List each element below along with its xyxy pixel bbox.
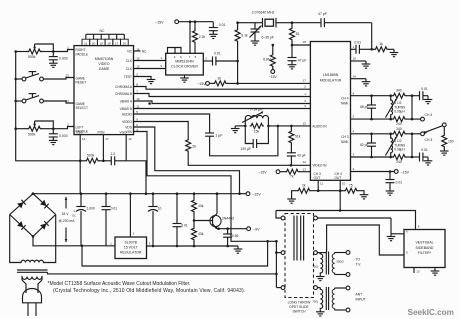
- svg-text:INPUT: INPUT: [356, 298, 366, 302]
- capacitor 120 uF (audio tank): [240, 126, 268, 151]
- ground (T1): [316, 274, 325, 280]
- svg-text:6.8M: 6.8M: [263, 57, 271, 61]
- capacitor 1000 uF (filter): [73, 194, 95, 246]
- resistor 75 (CH out): [340, 183, 364, 194]
- wire pin 16 ground: [351, 61, 367, 64]
- wire S2 to pin 24: [43, 101, 74, 103]
- svg-text:SL007B: SL007B: [124, 241, 137, 245]
- switch S3 DPDT slide (dashed box): [285, 214, 314, 298]
- wire crystal to cap: [292, 22, 321, 24]
- capacitor 68 pF (CH4 tank): [360, 96, 376, 119]
- svg-text:75Ω: 75Ω: [312, 264, 318, 268]
- wire U1 CLK to clock driver pin 1: [134, 56, 166, 60]
- capacitor (pin 1 coupling): [351, 40, 372, 53]
- terminal -15V (6.8M): [269, 68, 278, 79]
- terminal ANT top: [346, 286, 350, 290]
- svg-text:OUT: OUT: [335, 176, 342, 180]
- svg-text:CH 3: CH 3: [425, 138, 433, 142]
- svg-text:NC: NC: [142, 50, 147, 54]
- AC plug: [23, 289, 42, 317]
- resistor 43k (upper): [192, 194, 204, 222]
- svg-text:13: 13: [303, 167, 307, 171]
- transformer T2 primary: [312, 288, 323, 310]
- svg-text:0.003: 0.003: [59, 134, 68, 138]
- svg-text:NC: NC: [100, 29, 105, 33]
- svg-text:0.56: 0.56: [232, 234, 239, 238]
- svg-text:2.2k: 2.2k: [199, 35, 206, 39]
- wire to switch left-middle: [275, 240, 281, 288]
- svg-text:10: 10: [158, 207, 162, 211]
- capacitor 0.01 (CH4 out): [420, 87, 429, 100]
- svg-text:500k: 500k: [28, 55, 36, 59]
- svg-text:@ 200 mA: @ 200 mA: [58, 219, 75, 223]
- svg-text:340: 340: [396, 127, 402, 131]
- wire regulator input: [33, 236, 115, 247]
- ground (mod supply cap): [386, 181, 403, 196]
- svg-text:MM53104N: MM53104N: [175, 59, 194, 63]
- ground (TEST): [147, 80, 156, 84]
- svg-text:24: 24: [65, 99, 69, 103]
- wire CH3 out pin 11: [317, 180, 320, 192]
- svg-text:CLK: CLK: [126, 59, 133, 63]
- svg-text:−15V: −15V: [155, 20, 164, 24]
- wire long return line: [82, 241, 268, 266]
- wire down to modulator pin 1: [370, 23, 373, 51]
- capacitor 0.01 (supply): [102, 194, 118, 246]
- wire CH3 tank top: [351, 133, 393, 136]
- svg-text:−9V: −9V: [253, 228, 260, 232]
- capacitor 0.01 (mod supply): [386, 172, 395, 192]
- switch S1 game reset: [14, 72, 43, 81]
- transformer T1 primary: [312, 253, 323, 275]
- capacitor 47 uF (osc): [288, 45, 307, 65]
- transformer T3 primary: [22, 277, 42, 280]
- transformer T2 secondary: [332, 288, 346, 310]
- svg-text:VIDEO: VIDEO: [122, 120, 132, 124]
- svg-text:11: 11: [320, 182, 323, 186]
- wire U1 pin16 NC stub: [134, 50, 148, 54]
- svg-text:1 µF: 1 µF: [215, 134, 223, 138]
- resistor 2.2k (clock supply): [193, 20, 206, 53]
- wire bus to regulator pin 2: [130, 194, 134, 237]
- switch S2 game select: [14, 94, 43, 103]
- ground (pin1 1k): [390, 53, 399, 57]
- svg-text:43k: 43k: [198, 232, 204, 236]
- terminal -15V (bus): [246, 192, 261, 197]
- inductor L2 CH3 tuning: [386, 134, 406, 157]
- svg-text:VIDEO: VIDEO: [98, 62, 109, 66]
- svg-text:VSS: VSS: [76, 131, 82, 135]
- resistor 2k (video): [186, 140, 197, 152]
- ground (pin16): [362, 64, 371, 68]
- capacitor 43 uF: [287, 144, 306, 165]
- wire audio path cont: [210, 125, 280, 156]
- svg-text:20: 20: [92, 41, 96, 45]
- resistor 500k (VSS bias): [80, 154, 103, 164]
- svg-text:0.01: 0.01: [214, 52, 221, 56]
- svg-text:0.06µH: 0.06µH: [394, 110, 405, 114]
- svg-text:VIDEO IN: VIDEO IN: [312, 164, 327, 168]
- svg-text:240: 240: [396, 122, 402, 126]
- svg-text:SIDEBAND: SIDEBAND: [416, 246, 434, 250]
- svg-text:SWITCH: SWITCH: [292, 310, 306, 314]
- resistor 2k (pin17): [214, 77, 228, 86]
- wire pot1 to pin 1: [53, 50, 74, 52]
- svg-text:19: 19: [100, 41, 104, 45]
- wire CH3 tank bottom: [351, 134, 413, 159]
- capacitor 47 pF (osc out): [318, 12, 372, 27]
- svg-text:LM1889N: LM1889N: [323, 73, 339, 77]
- svg-text:2k: 2k: [218, 77, 222, 81]
- IC U4 voltage regulator: [110, 237, 150, 259]
- svg-text:5.1k: 5.1k: [241, 34, 248, 38]
- svg-text:15k: 15k: [254, 129, 260, 133]
- terminal TV out bottom: [346, 273, 350, 277]
- resistor 340 (CH4): [393, 88, 420, 98]
- svg-text:82 pF: 82 pF: [360, 143, 368, 147]
- svg-text:14: 14: [353, 74, 357, 78]
- svg-text:15 VOLT: 15 VOLT: [124, 246, 139, 250]
- svg-text:21: 21: [84, 41, 88, 45]
- filter FL1 vestigial sideband: [404, 225, 445, 268]
- svg-text:51: 51: [296, 32, 300, 36]
- wire video path to pin 12: [188, 152, 310, 167]
- wire U1 CLK to clock driver pin 9: [134, 64, 166, 68]
- wire RF line to filter pin 8: [276, 191, 416, 230]
- wire clock driver pins 3,6 tie: [168, 48, 182, 54]
- wire audio path: [134, 114, 210, 133]
- potentiometer R2 500k (left paddle): [14, 121, 54, 136]
- svg-text:TANK: TANK: [340, 102, 349, 106]
- wire pin12 to bus: [126, 161, 147, 195]
- switch terminals left: [281, 216, 285, 289]
- label ANT INPUT: [356, 293, 366, 302]
- wire chroma B line: [134, 85, 311, 90]
- wire to modulator pin 18: [292, 40, 310, 45]
- svg-text:75Ω: 75Ω: [312, 299, 318, 303]
- switch slide bars: [294, 216, 304, 261]
- svg-text:AUDIO IN: AUDIO IN: [312, 124, 327, 128]
- resistor 340 (CH3): [393, 127, 421, 136]
- svg-text:43k: 43k: [198, 204, 204, 208]
- wire plug leads: [22, 277, 42, 294]
- svg-text:120 µF: 120 µF: [240, 147, 251, 151]
- svg-text:43 µF: 43 µF: [297, 153, 306, 157]
- svg-text:DPDT SLIDE: DPDT SLIDE: [289, 305, 309, 309]
- transformer T1 secondary: [332, 253, 346, 275]
- variable capacitor 6-35 pF: [250, 23, 274, 41]
- svg-text:−15V: −15V: [197, 82, 206, 86]
- svg-text:−15V: −15V: [258, 171, 267, 175]
- ground (CH3 cap): [424, 161, 433, 165]
- resistor 240 (CH3): [393, 155, 420, 165]
- svg-text:CH 4: CH 4: [425, 113, 433, 117]
- wire bridge left to secondary: [10, 215, 21, 263]
- terminal -9V: [247, 227, 260, 232]
- wire clock driver pin 7 to -15V line: [189, 20, 192, 53]
- caption text: [48, 281, 246, 294]
- svg-text:1.0: 1.0: [111, 152, 116, 156]
- svg-text:0.01: 0.01: [219, 23, 226, 27]
- svg-text:FILTER*: FILTER*: [418, 251, 432, 255]
- svg-text:REGULATOR: REGULATOR: [120, 251, 142, 255]
- ground (filter): [431, 268, 440, 276]
- wire pin 14 ground: [351, 79, 367, 82]
- svg-text:68 pF: 68 pF: [360, 105, 368, 109]
- wire -15V bus: [32, 192, 246, 195]
- IC U1 MM57105N video game chip: [65, 29, 139, 141]
- resistor 51k (audio-video): [289, 126, 301, 144]
- svg-text:75: 75: [349, 183, 353, 187]
- svg-text:PADDLE: PADDLE: [76, 52, 89, 56]
- capacitor 0.56: [223, 229, 238, 248]
- svg-text:0.08µH: 0.08µH: [394, 148, 405, 152]
- ground (right paddle cap): [49, 63, 58, 67]
- svg-text:0.003: 0.003: [59, 57, 68, 61]
- svg-text:14: 14: [82, 137, 86, 141]
- wire VSS line to switch: [134, 132, 277, 243]
- IC U2 MM53104N clock driver: [166, 53, 204, 75]
- svg-text:AUDIO: AUDIO: [122, 112, 133, 116]
- svg-text:VBIAS A: VBIAS A: [120, 99, 133, 103]
- svg-text:18: 18: [107, 41, 111, 45]
- svg-text:18 V: 18 V: [62, 212, 70, 216]
- svg-text:TEST: TEST: [124, 75, 132, 79]
- switch channel select: [424, 123, 446, 134]
- ground (75 res): [360, 195, 369, 199]
- svg-text:0.01: 0.01: [111, 207, 118, 211]
- wire audio tank to pin 15: [268, 125, 310, 128]
- label TO T.V.: [356, 258, 362, 267]
- potentiometer R1 500k (right paddle): [14, 44, 54, 59]
- svg-text:51k: 51k: [295, 135, 301, 139]
- ground (pin14): [362, 82, 371, 86]
- resistor 1k (pin 1): [372, 42, 394, 53]
- svg-text:12: 12: [303, 160, 307, 164]
- svg-text:TO: TO: [356, 258, 361, 262]
- svg-text:CLOCK DRIVER: CLOCK DRIVER: [171, 65, 198, 69]
- ground (reg output): [234, 249, 243, 253]
- wire CH4 tank top: [351, 94, 393, 97]
- svg-text:0.01: 0.01: [181, 224, 188, 228]
- svg-text:16: 16: [353, 57, 357, 61]
- transformer T3 core: [17, 270, 48, 272]
- svg-text:NC: NC: [127, 49, 132, 53]
- svg-text:−15V: −15V: [252, 193, 261, 197]
- wire RF line to switch top-left: [276, 211, 281, 219]
- svg-text:VESTIGIAL: VESTIGIAL: [415, 241, 433, 245]
- capacitor 0.01 (reg out): [173, 194, 188, 248]
- capacitor 1.0 (PON): [103, 152, 126, 165]
- resistor 240 (CH4): [393, 117, 421, 127]
- svg-text:DC: DC: [72, 213, 76, 217]
- svg-text:T.V.: T.V.: [356, 263, 362, 267]
- svg-text:0.01: 0.01: [354, 40, 361, 44]
- wire Vbias B line: [134, 99, 311, 105]
- resistor 43k (lower): [192, 221, 204, 248]
- svg-text:VGG: VGG: [120, 131, 128, 135]
- svg-text:(Crystal Technology Inc., 2510: (Crystal Technology Inc., 2510 Old Middl…: [53, 288, 245, 294]
- left supply bus wire: [16, 52, 81, 161]
- svg-text:OUT: OUT: [314, 176, 321, 180]
- svg-text:12: 12: [128, 137, 132, 141]
- svg-text:−15V: −15V: [269, 75, 278, 79]
- svg-text:17: 17: [115, 41, 119, 45]
- terminal TV out top: [346, 251, 350, 255]
- svg-text:2k: 2k: [302, 183, 306, 187]
- resistor 2k (video out): [292, 183, 341, 199]
- ground (left paddle cap): [49, 140, 58, 144]
- svg-text:2.070640 MHz: 2.070640 MHz: [252, 11, 275, 15]
- label slide switch: [288, 301, 312, 314]
- wire to modulator pin 17: [227, 78, 310, 83]
- svg-text:47 pF: 47 pF: [318, 12, 327, 16]
- wire VSS-PON network: [79, 141, 126, 194]
- wire VDD line to -15V bus: [134, 127, 241, 195]
- ground (clock bypass cap): [209, 34, 218, 38]
- svg-text:ANT: ANT: [356, 293, 363, 297]
- resistor 5.1k (osc bias): [235, 23, 248, 85]
- ground (T2): [316, 310, 325, 316]
- svg-text:CH 4: CH 4: [341, 97, 348, 101]
- svg-text:7k: 7k: [290, 175, 294, 179]
- switch terminals right: [314, 216, 318, 289]
- svg-text:2N4403: 2N4403: [222, 216, 234, 220]
- capacitor 0.003 (left paddle): [49, 129, 68, 141]
- svg-text:2k: 2k: [192, 144, 196, 148]
- capacitor 0.01 (CH3 out): [420, 148, 429, 161]
- svg-text:15: 15: [303, 121, 307, 125]
- svg-text:23: 23: [65, 74, 69, 78]
- svg-text:RESET: RESET: [76, 81, 87, 85]
- transformer T3 secondary: [21, 260, 44, 262]
- svg-text:340: 340: [396, 88, 402, 92]
- wire switch mid-right to filter pin 5: [317, 225, 404, 255]
- transformer T2 core: [326, 287, 328, 310]
- wire chroma A line: [134, 92, 311, 97]
- terminal CH3 output: [421, 132, 433, 142]
- svg-text:CH 4: CH 4: [335, 172, 342, 176]
- svg-text:17: 17: [303, 78, 307, 82]
- terminal -15V (modulator): [394, 170, 409, 175]
- wire S1 to pin 23: [43, 78, 74, 80]
- wire CH4 tank bottom: [351, 96, 413, 121]
- capacitor 0.01 (clock supply bypass): [209, 22, 226, 35]
- svg-text:CHROMA A: CHROMA A: [115, 85, 133, 89]
- svg-text:0.01: 0.01: [396, 181, 403, 185]
- ground (trimmer cap): [251, 41, 260, 45]
- svg-text:PON: PON: [98, 131, 106, 135]
- svg-text:VDD: VDD: [125, 125, 132, 129]
- wire crystal line: [236, 21, 250, 24]
- svg-text:MODULATOR: MODULATOR: [320, 78, 342, 82]
- wire pot2 to pin 2: [53, 127, 74, 129]
- svg-text:10: 10: [342, 182, 346, 186]
- svg-text:18: 18: [303, 40, 307, 44]
- svg-text:1,000: 1,000: [86, 207, 95, 211]
- resistor 7k (pin 13): [258, 169, 310, 178]
- svg-text:100: 100: [448, 139, 454, 143]
- svg-text:VBIAS B: VBIAS B: [120, 107, 132, 111]
- terminal ANT bottom: [346, 308, 350, 312]
- wire regulator output line: [147, 246, 239, 249]
- wire Vbias A line: [134, 104, 311, 109]
- wire video path upper: [134, 122, 189, 140]
- svg-text:500k: 500k: [87, 154, 95, 158]
- ground (2k): [287, 199, 296, 203]
- diode bridge rectifier: [10, 192, 56, 237]
- wire CH4 out pin 10: [339, 180, 342, 192]
- ground (47uF): [288, 65, 297, 69]
- ground (CH4 cap): [424, 100, 433, 104]
- ground (filter pin 6): [387, 234, 396, 241]
- wire pin 2 to -15V terminal: [351, 170, 395, 173]
- svg-text:7–14 µH: 7–14 µH: [250, 108, 263, 112]
- wire -9V rail: [217, 227, 247, 230]
- svg-text:CHROMA B: CHROMA B: [115, 92, 132, 96]
- svg-text:SeekIC.com: SeekIC.com: [408, 308, 454, 317]
- svg-text:13: 13: [416, 270, 420, 274]
- capacitor 10 uF (reg out): [148, 194, 161, 248]
- svg-text:500k: 500k: [28, 132, 36, 136]
- watermark SeekIC.com: [408, 308, 454, 317]
- ground (audio tank): [231, 126, 245, 133]
- svg-text:*Model CT1358 Surface Acoustic: *Model CT1358 Surface Acoustic Wave Cuto…: [48, 281, 191, 287]
- resistor 100 (switch): [442, 127, 454, 151]
- svg-text:MM57105N: MM57105N: [95, 57, 114, 61]
- svg-text:0.01: 0.01: [421, 148, 428, 152]
- svg-text:17: 17: [105, 137, 109, 141]
- IC U3 LM1889N modulator: [303, 42, 357, 186]
- wire switch top-right to filter pin 6 ground: [317, 218, 404, 234]
- svg-text:1k: 1k: [379, 42, 383, 46]
- svg-text:SELECT: SELECT: [76, 106, 88, 110]
- terminal -15V (pin17 line): [197, 82, 213, 87]
- svg-text:6–35 pF: 6–35 pF: [262, 36, 274, 40]
- ground (100 res): [440, 151, 449, 155]
- svg-text:16: 16: [123, 41, 127, 45]
- terminal CH4 output: [421, 113, 433, 121]
- wire transformer to switch line: [48, 272, 277, 274]
- capacitor 0.003 (right paddle): [49, 52, 68, 64]
- svg-text:LONG THROW: LONG THROW: [288, 301, 312, 305]
- svg-text:CH 3: CH 3: [314, 172, 321, 176]
- svg-text:CH 3: CH 3: [341, 135, 348, 139]
- resistor 15k (audio tank): [250, 123, 263, 133]
- svg-text:CLK: CLK: [126, 67, 133, 71]
- capacitor 0.01 (clock output coupling): [203, 52, 239, 66]
- wire U1 TEST stub: [134, 77, 152, 80]
- transformer T1 core: [326, 252, 328, 275]
- wire filter bottom pin: [414, 268, 420, 274]
- inductor L1 CH4 tuning: [386, 96, 406, 119]
- svg-text:300Ω: 300Ω: [336, 260, 344, 264]
- svg-text:240: 240: [396, 160, 402, 164]
- label 18 VDC: [58, 197, 76, 243]
- svg-text:−15V: −15V: [401, 170, 410, 174]
- svg-text:0.01: 0.01: [421, 87, 428, 91]
- terminal -15V (clock): [155, 20, 213, 24]
- transistor Q1 2N4403: [194, 192, 234, 229]
- crystal Y1 2.070640 MHz: [251, 11, 294, 28]
- inductor 7-14 uH (audio tank): [242, 108, 270, 128]
- capacitor 82 pF (CH3 tank): [360, 134, 376, 157]
- svg-text:GAME: GAME: [99, 67, 110, 71]
- resistor 51 (osc): [290, 23, 300, 47]
- capacitor 1 uF (audio coupling): [205, 133, 223, 138]
- ground (clock driver): [180, 75, 189, 82]
- wire bridge right to secondary: [44, 215, 56, 263]
